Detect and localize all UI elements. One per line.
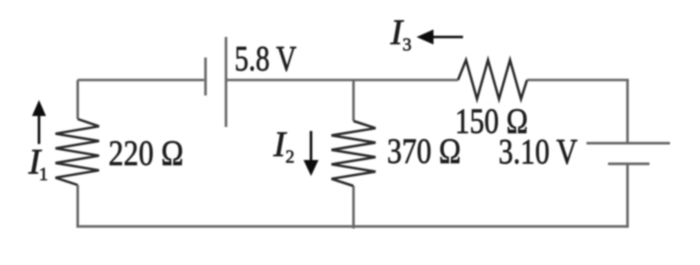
- svg-text:220 Ω: 220 Ω: [109, 133, 184, 173]
- svg-text:I1: I1: [28, 142, 49, 185]
- svg-text:3.10 V: 3.10 V: [499, 132, 578, 172]
- svg-text:5.8 V: 5.8 V: [235, 39, 297, 79]
- svg-text:370 Ω: 370 Ω: [387, 131, 461, 171]
- svg-text:I3: I3: [390, 12, 412, 55]
- svg-text:I2: I2: [273, 124, 295, 167]
